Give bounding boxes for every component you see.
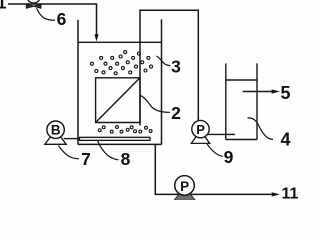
bubbles lower zone [98,126,152,134]
svg-text:6: 6 [57,9,67,29]
diagonal plate inside box 2 [96,78,140,123]
tank T4: right wall [256,63,258,139]
pump P11 stand (shaded) [174,193,195,200]
svg-text:7: 7 [81,149,91,169]
arrowhead 11 [272,192,280,196]
svg-text:11: 11 [282,185,299,200]
pump P11 circle [175,176,195,196]
water line in tank T4 [226,79,257,81]
svg-text:2: 2 [171,103,181,123]
svg-text:P: P [180,179,189,194]
svg-text:1: 1 [0,0,7,13]
blower B stand [45,137,66,145]
svg-text:3: 3 [171,56,181,76]
pump P9 circle [192,120,209,137]
tank T1: bottom [78,143,162,145]
svg-text:5: 5 [280,83,290,103]
wire: tank bottom drain to pump 11 outlet [155,145,271,195]
arrowhead: feed into tank [94,34,98,41]
valve V6 body [26,4,41,8]
svg-text:P: P [196,122,205,137]
settler box 2 [96,78,140,123]
water line in tank T1 [78,41,162,43]
pipe: box 2 up and over to pump 9 [140,10,198,125]
leader to 4 [248,118,274,140]
leader to 6 [37,8,55,20]
leader to 9 [207,144,223,157]
blower B circle [47,121,64,138]
leader to 2 [140,95,170,112]
leader to 7 [59,146,80,159]
wire: pump P9 discharge to tank 4 [208,133,236,135]
wire: blower B to plate [64,138,80,140]
tank T1: right wall [161,19,163,144]
tank T1: left wall [77,20,79,145]
wire: inlet line from 1 to tank [8,4,97,35]
bubbles upper zone [90,51,152,75]
svg-text:B: B [51,123,61,138]
svg-text:9: 9 [224,147,234,167]
arrowhead 5 [272,89,280,93]
wire: outlet arrow 5 [243,91,272,93]
valve V6 actuator circle [27,0,41,3]
leader to 8 [98,141,119,160]
aeration plate 8 [80,137,151,140]
tank T4: bottom [226,139,257,141]
svg-text:4: 4 [280,129,290,149]
tank T4: left wall [225,63,227,139]
pump P9 stand [191,137,209,144]
leader to 3 [157,56,171,66]
svg-text:8: 8 [121,149,131,169]
